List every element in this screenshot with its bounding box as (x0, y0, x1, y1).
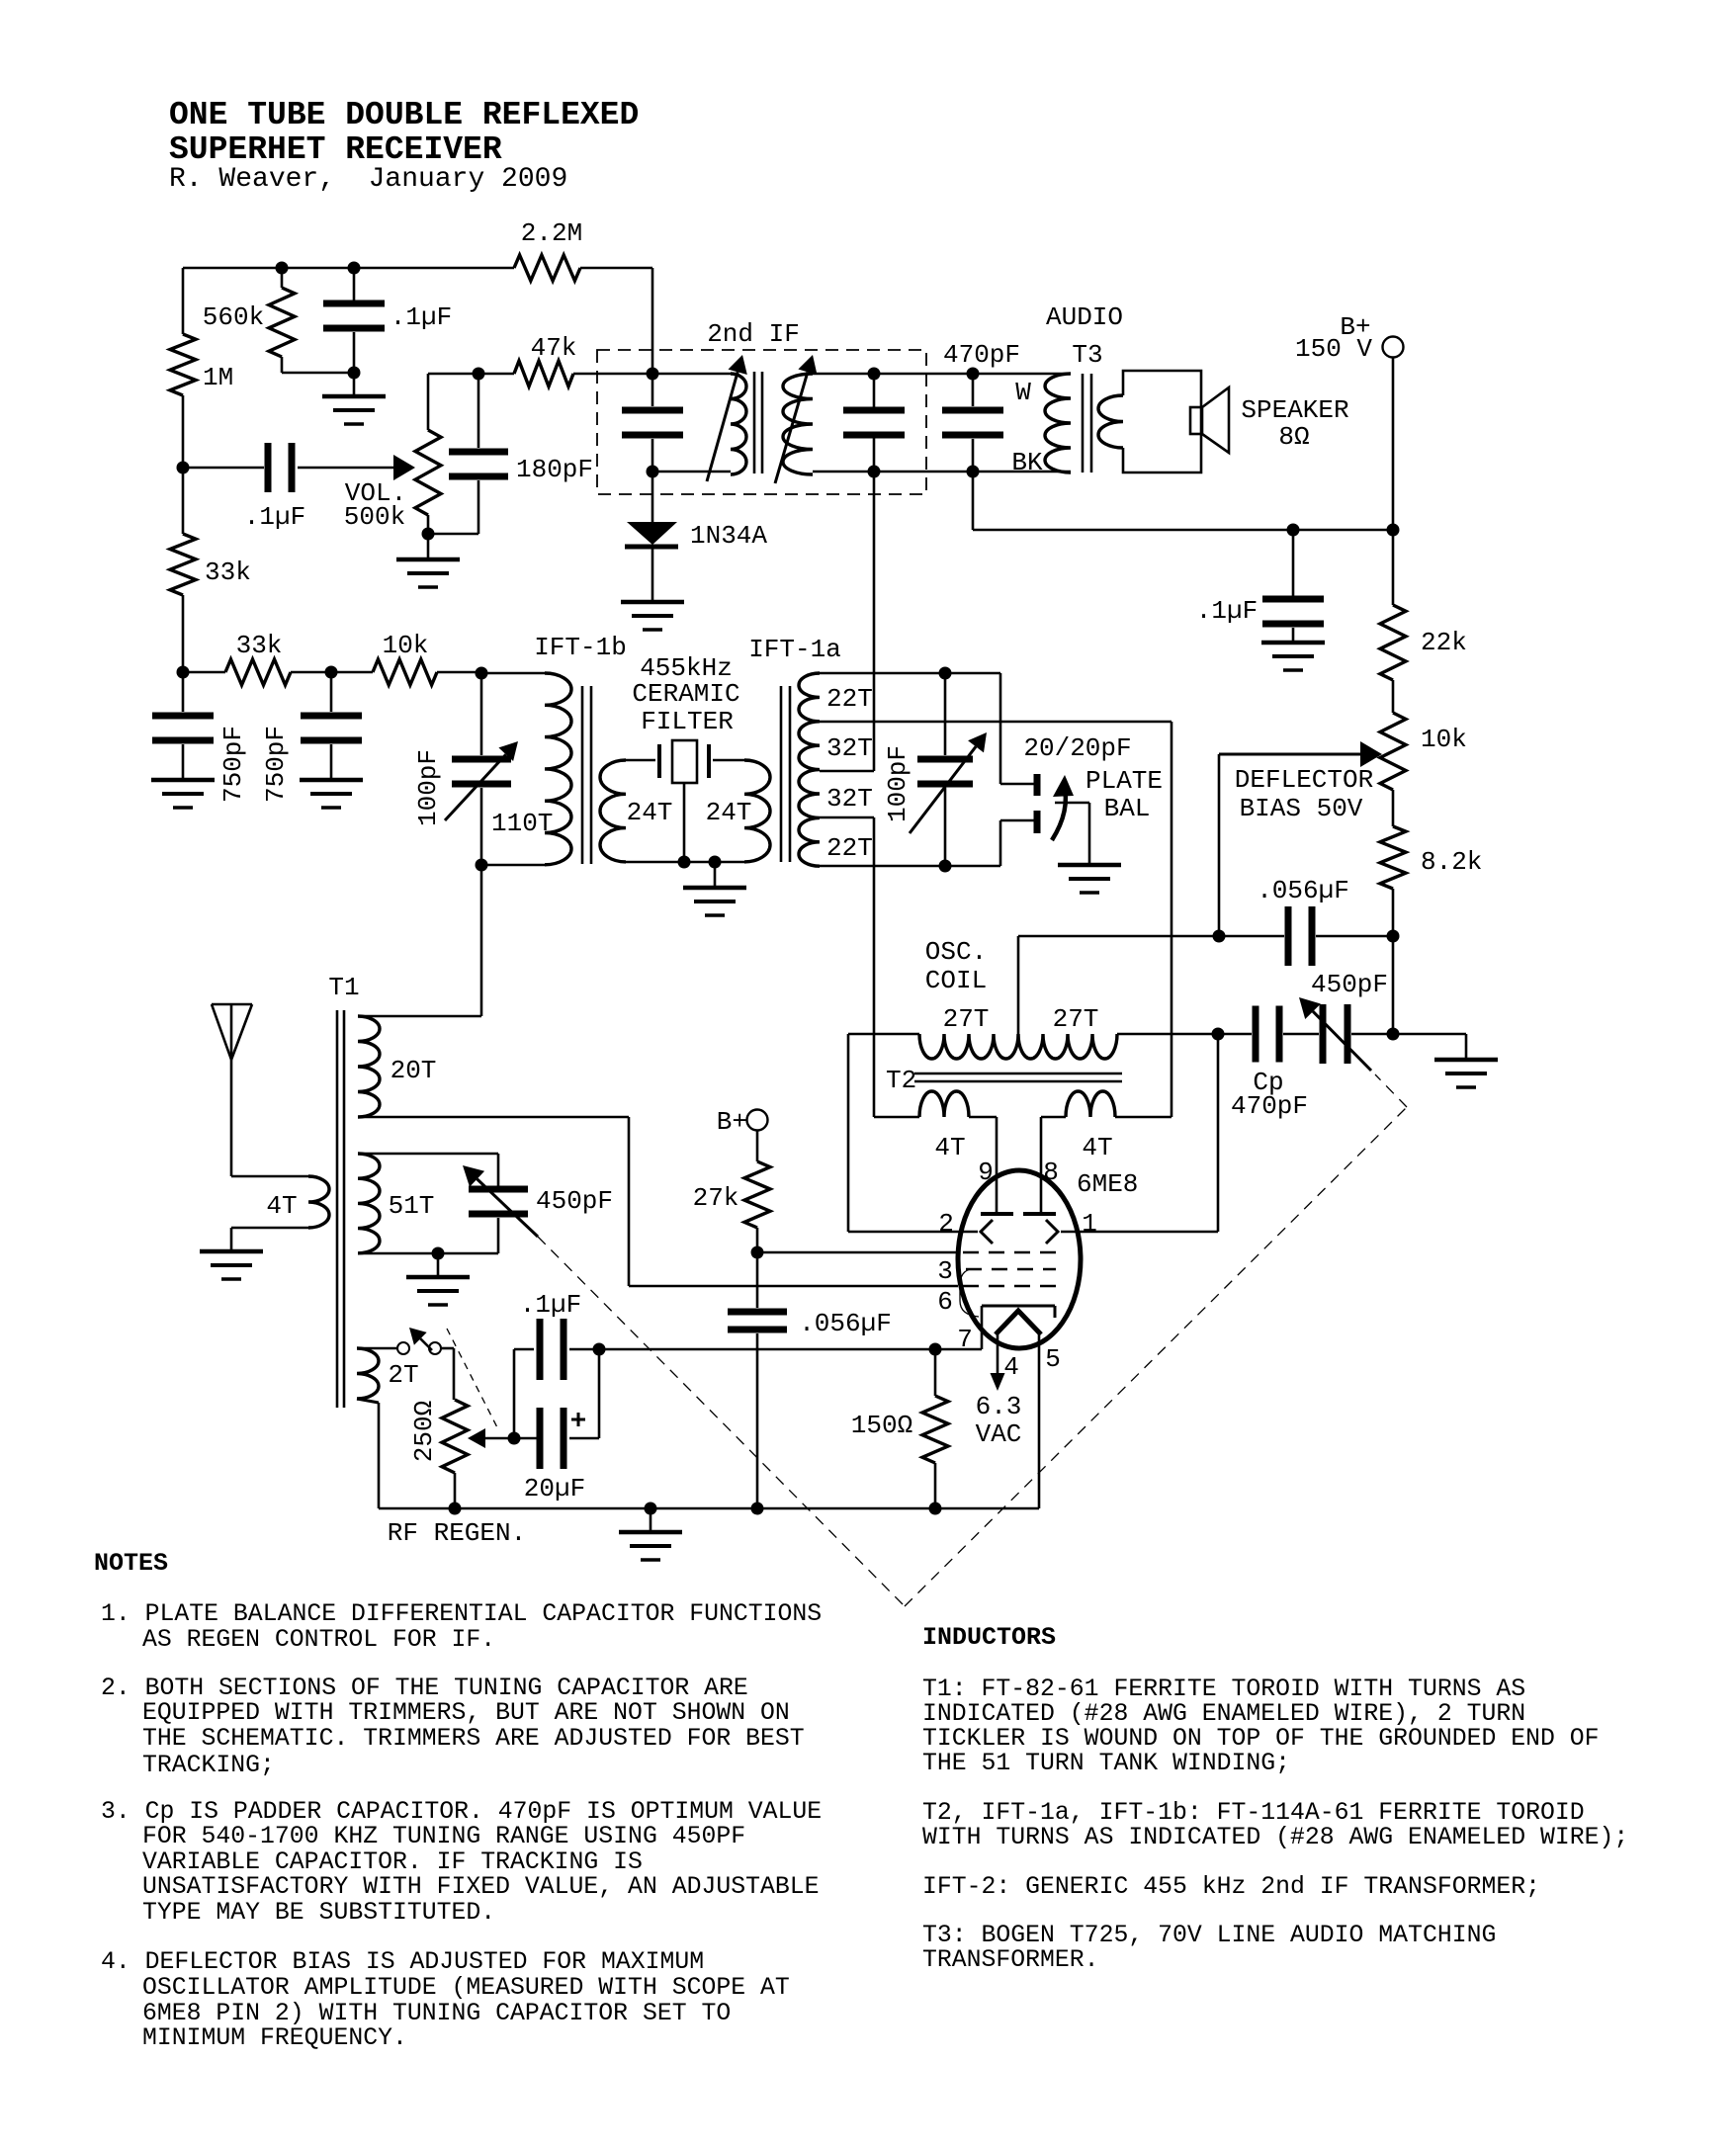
svg-text:VAC: VAC (976, 1419, 1022, 1449)
svg-text:2.2M: 2.2M (521, 218, 582, 248)
svg-text:THE 51 TURN TANK WINDING;: THE 51 TURN TANK WINDING; (922, 1750, 1290, 1777)
svg-text:2: 2 (938, 1209, 954, 1239)
svg-text:1M: 1M (203, 363, 233, 392)
svg-text:22k: 22k (1421, 628, 1467, 657)
svg-text:TRACKING;: TRACKING; (142, 1752, 275, 1779)
svg-text:5: 5 (1045, 1344, 1061, 1374)
svg-text:TYPE MAY BE SUBSTITUTED.: TYPE MAY BE SUBSTITUTED. (142, 1899, 495, 1927)
svg-text:470pF: 470pF (1231, 1091, 1308, 1121)
svg-text:750pF: 750pF (218, 726, 248, 803)
svg-text:450pF: 450pF (536, 1186, 613, 1216)
svg-text:COIL: COIL (925, 966, 987, 995)
svg-text:20T: 20T (391, 1056, 437, 1085)
svg-text:27T: 27T (943, 1004, 990, 1034)
svg-text:.056µF: .056µF (1257, 876, 1349, 905)
svg-text:47k: 47k (531, 333, 577, 363)
svg-text:560k: 560k (203, 302, 264, 332)
svg-text:2T: 2T (388, 1360, 418, 1390)
svg-text:DEFLECTOR: DEFLECTOR (1235, 765, 1373, 795)
svg-text:MINIMUM FREQUENCY.: MINIMUM FREQUENCY. (142, 2024, 407, 2052)
svg-text:6ME8 PIN 2) WITH TUNING CAPACI: 6ME8 PIN 2) WITH TUNING CAPACITOR SET TO (142, 2000, 731, 2027)
svg-text:180pF: 180pF (516, 455, 593, 484)
svg-text:3. Cp IS PADDER CAPACITOR. 470: 3. Cp IS PADDER CAPACITOR. 470pF IS OPTI… (101, 1798, 822, 1826)
svg-text:100pF: 100pF (413, 749, 443, 826)
svg-text:10k: 10k (1421, 725, 1467, 754)
svg-text:TRANSFORMER.: TRANSFORMER. (922, 1946, 1099, 1974)
svg-text:VARIABLE CAPACITOR. IF TRACKIN: VARIABLE CAPACITOR. IF TRACKING IS (142, 1848, 643, 1876)
svg-text:10k: 10k (383, 631, 429, 660)
svg-text:R. Weaver, January 2009: R. Weaver, January 2009 (169, 164, 567, 195)
svg-text:RF REGEN.: RF REGEN. (388, 1518, 526, 1548)
svg-text:T3: T3 (1072, 340, 1102, 370)
svg-text:WITH TURNS AS INDICATED (#28 A: WITH TURNS AS INDICATED (#28 AWG ENAMELE… (922, 1824, 1628, 1851)
svg-text:33k: 33k (236, 631, 283, 660)
svg-text:AUDIO: AUDIO (1046, 302, 1123, 332)
svg-text:EQUIPPED WITH TRIMMERS, BUT AR: EQUIPPED WITH TRIMMERS, BUT ARE NOT SHOW… (142, 1699, 790, 1727)
svg-text:INDUCTORS: INDUCTORS (922, 1623, 1056, 1652)
svg-text:450pF: 450pF (1311, 970, 1388, 999)
svg-text:ONE TUBE DOUBLE REFLEXED: ONE TUBE DOUBLE REFLEXED (169, 97, 639, 133)
svg-text:TICKLER IS WOUND ON TOP OF THE: TICKLER IS WOUND ON TOP OF THE GROUNDED … (922, 1725, 1600, 1753)
svg-text:4: 4 (1003, 1352, 1019, 1382)
svg-text:24T: 24T (627, 798, 673, 827)
svg-text:3: 3 (937, 1256, 953, 1286)
svg-text:SPEAKER: SPEAKER (1241, 395, 1348, 425)
svg-text:8Ω: 8Ω (1278, 422, 1309, 452)
svg-text:4. DEFLECTOR BIAS IS ADJUSTED: 4. DEFLECTOR BIAS IS ADJUSTED FOR MAXIMU… (101, 1948, 704, 1976)
svg-text:1: 1 (1082, 1209, 1097, 1239)
svg-text:T2: T2 (886, 1066, 916, 1095)
svg-text:.056µF: .056µF (799, 1309, 892, 1338)
svg-text:150Ω: 150Ω (851, 1411, 912, 1440)
svg-text:500k: 500k (344, 502, 405, 532)
svg-text:27T: 27T (1053, 1004, 1099, 1034)
svg-text:24T: 24T (706, 798, 752, 827)
svg-text:1. PLATE BALANCE DIFFERENTIAL: 1. PLATE BALANCE DIFFERENTIAL CAPACITOR … (101, 1600, 822, 1628)
svg-text:CERAMIC: CERAMIC (632, 679, 739, 709)
svg-text:FILTER: FILTER (641, 707, 734, 736)
svg-text:IFT-2: GENERIC 455 kHz 2nd IF: IFT-2: GENERIC 455 kHz 2nd IF TRANSFORME… (922, 1873, 1540, 1901)
svg-text:IFT-1a: IFT-1a (748, 635, 841, 664)
svg-text:110T: 110T (491, 809, 553, 838)
svg-text:PLATE: PLATE (1085, 766, 1163, 796)
svg-text:BAL: BAL (1104, 794, 1151, 823)
svg-text:INDICATED (#28 AWG ENAMELED WI: INDICATED (#28 AWG ENAMELED WIRE), 2 TUR… (922, 1700, 1525, 1728)
svg-text:4T: 4T (934, 1133, 965, 1162)
svg-text:UNSATISFACTORY WITH FIXED VALU: UNSATISFACTORY WITH FIXED VALUE, AN ADJU… (142, 1873, 820, 1901)
svg-text:6: 6 (937, 1287, 953, 1317)
svg-text:150 V: 150 V (1295, 334, 1372, 364)
svg-text:W: W (1015, 378, 1031, 407)
svg-text:T1: FT-82-61 FERRITE TOROID WI: T1: FT-82-61 FERRITE TOROID WITH TURNS A… (922, 1675, 1525, 1703)
svg-text:1N34A: 1N34A (690, 521, 767, 551)
svg-text:20/20pF: 20/20pF (1023, 733, 1131, 763)
svg-text:33k: 33k (205, 558, 251, 587)
svg-text:22T: 22T (826, 684, 873, 714)
svg-text:BK: BK (1011, 448, 1043, 477)
svg-text:4T: 4T (1082, 1133, 1112, 1162)
svg-text:20µF: 20µF (524, 1474, 585, 1503)
svg-text:470pF: 470pF (943, 340, 1020, 370)
svg-text:2nd IF: 2nd IF (707, 319, 800, 349)
svg-text:4T: 4T (266, 1191, 297, 1221)
svg-text:OSC.: OSC. (925, 937, 987, 967)
svg-text:32T: 32T (826, 733, 873, 763)
svg-text:27k: 27k (693, 1183, 739, 1213)
svg-text:T1: T1 (328, 973, 359, 1002)
svg-text:250Ω: 250Ω (409, 1401, 439, 1462)
svg-text:2. BOTH SECTIONS OF THE TUNING: 2. BOTH SECTIONS OF THE TUNING CAPACITOR… (101, 1675, 748, 1702)
svg-text:BIAS 50V: BIAS 50V (1240, 794, 1363, 823)
svg-text:22T: 22T (826, 833, 873, 863)
svg-text:.1µF: .1µF (1196, 596, 1258, 626)
svg-text:THE SCHEMATIC. TRIMMERS ARE AD: THE SCHEMATIC. TRIMMERS ARE ADJUSTED FOR… (142, 1725, 805, 1753)
svg-text:IFT-1b: IFT-1b (534, 633, 627, 662)
svg-text:51T: 51T (389, 1191, 435, 1221)
svg-text:T2, IFT-1a, IFT-1b: FT-114A-61: T2, IFT-1a, IFT-1b: FT-114A-61 FERRITE T… (922, 1799, 1585, 1827)
svg-text:NOTES: NOTES (94, 1549, 168, 1578)
svg-text:750pF: 750pF (261, 726, 291, 803)
svg-text:32T: 32T (826, 784, 873, 814)
svg-text:.1µF: .1µF (244, 502, 305, 532)
svg-text:.1µF: .1µF (520, 1290, 581, 1320)
svg-text:100pF: 100pF (883, 745, 912, 822)
svg-text:6ME8: 6ME8 (1077, 1169, 1138, 1199)
svg-text:8.2k: 8.2k (1421, 847, 1482, 877)
svg-text:B+: B+ (717, 1107, 747, 1137)
svg-text:6.3: 6.3 (976, 1392, 1022, 1421)
svg-text:FOR 540-1700 KHZ TUNING RANGE: FOR 540-1700 KHZ TUNING RANGE USING 450P… (142, 1823, 745, 1850)
svg-text:SUPERHET RECEIVER: SUPERHET RECEIVER (169, 131, 502, 168)
svg-text:.1µF: .1µF (391, 302, 452, 332)
svg-text:T3: BOGEN T725, 70V LINE AUDIO: T3: BOGEN T725, 70V LINE AUDIO MATCHING (922, 1922, 1496, 1949)
svg-text:OSCILLATOR AMPLITUDE (MEASURED: OSCILLATOR AMPLITUDE (MEASURED WITH SCOP… (142, 1974, 790, 2002)
svg-text:AS REGEN CONTROL FOR IF.: AS REGEN CONTROL FOR IF. (142, 1626, 495, 1654)
